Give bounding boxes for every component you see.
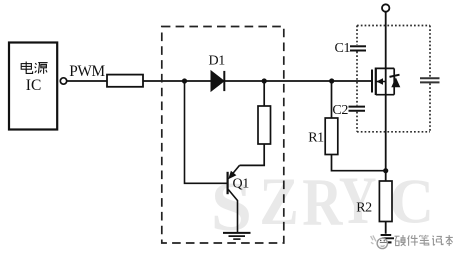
ground (Q1 collector) [223,233,251,239]
label Q1 [233,176,250,191]
diode D1 [211,71,224,91]
wire node C down to R1 [331,81,333,118]
transistor Q1 (PNP) [228,165,240,232]
件 [408,235,410,245]
terminal PWM (output pin circle) [60,78,66,84]
resistor R1 [325,118,338,155]
笔 [419,235,428,237]
dashed enclosure (turn-off driver block) [162,27,284,244]
svg-text:D1: D1 [209,54,226,69]
svg-text:C2: C2 [332,103,348,118]
resistor (emitter pull, unlabeled) [258,106,271,144]
svg-text:Z: Z [259,163,298,239]
svg-text:IC: IC [26,77,42,94]
svg-text:PWM: PWM [69,63,105,80]
body diode of MOSFET [390,68,401,94]
MOSFET M1 (N-channel, unlabeled) [372,68,394,96]
label R2 [356,200,372,215]
svg-text:C1: C1 [335,41,351,56]
node A (junction on PWM line, base branch) [182,78,187,83]
label C2 [332,103,348,118]
node C (gate branch junction) [329,78,334,83]
watermark logo (pen circle icon) [371,235,388,248]
capacitor C2 (gate-source) [349,107,366,111]
label C1 [335,41,351,56]
dotted enclosure (MOSFET package with parasitics) [357,26,430,132]
resistor R2 [379,181,392,222]
硬 [395,235,400,237]
capacitor (drain-source, unlabeled) [420,78,440,82]
本 [446,235,453,246]
wire R1 to source node D [332,155,386,171]
label 源 (yuan) [35,63,48,74]
wire node B down to resistor [263,81,265,106]
记 [432,236,435,246]
wire node A to Q1 base [185,81,228,183]
svg-text:Q1: Q1 [233,176,250,191]
terminal (drain, top circle) [382,4,389,11]
watermark SZRYC [211,163,434,245]
label IC [26,77,42,94]
power IC box U (电源 IC) [9,43,57,130]
wire PWM pin to series resistor [67,80,107,82]
svg-text:R2: R2 [356,200,372,215]
resistor (series gate resistor, unlabeled) [107,75,143,87]
wire resistor to gate node [143,80,372,82]
wire drain vertical main line [385,12,387,234]
wire resistor to Q1 emitter [240,144,265,165]
label D1 [209,54,226,69]
node D (source / R2 junction) [383,168,388,173]
svg-text:R1: R1 [308,131,324,146]
svg-text:C: C [389,166,434,237]
label PWM [69,63,105,80]
label 电 (dian) [21,62,32,74]
watermark text 硬件笔记本 [395,235,453,246]
svg-text:R: R [302,166,343,240]
ground (R2 bottom) [381,235,394,242]
capacitor C1 (gate-drain) [350,46,366,50]
node B (junction after D1) [262,78,267,83]
label R1 [308,131,324,146]
